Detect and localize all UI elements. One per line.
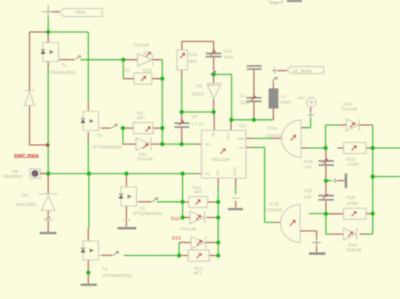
- svg-text:TS4148: TS4148: [180, 227, 197, 232]
- svg-text:HIN: HIN: [238, 136, 245, 141]
- svg-text:TS4148: TS4148: [133, 43, 150, 48]
- svg-text:VB: VB: [211, 131, 216, 137]
- svg-text:4R7: 4R7: [137, 116, 146, 121]
- svg-text:VS: VS: [205, 171, 211, 176]
- svg-text:4R7: 4R7: [194, 189, 203, 194]
- svg-text:10nF: 10nF: [224, 55, 235, 60]
- svg-text:C25: C25: [304, 188, 313, 193]
- svg-text:4R7: 4R7: [193, 271, 202, 276]
- svg-text:22µF: 22µF: [240, 100, 251, 105]
- svg-text:IPT026N10N3: IPT026N10N3: [93, 144, 123, 149]
- svg-text:C24: C24: [304, 159, 313, 164]
- svg-text:D13: D13: [172, 236, 181, 242]
- svg-text:IPT029N10N3: IPT029N10N3: [46, 70, 76, 75]
- svg-text:T1: T1: [62, 63, 68, 68]
- svg-text:+5V: +5V: [297, 95, 306, 100]
- svg-text:VE_Weld: VE_Weld: [292, 68, 312, 73]
- svg-text:D2: D2: [22, 193, 28, 198]
- svg-text:4R7: 4R7: [122, 68, 131, 73]
- svg-text:T3: T3: [97, 133, 103, 138]
- svg-text:470R: 470R: [347, 162, 359, 167]
- svg-text:R19: R19: [347, 195, 356, 200]
- svg-text:VCC: VCC: [226, 132, 231, 141]
- svg-text:HO: HO: [205, 142, 211, 147]
- svg-text:10µH: 10µH: [280, 100, 291, 105]
- svg-text:ES1G: ES1G: [192, 92, 205, 97]
- svg-text:COM: COM: [232, 167, 237, 176]
- svg-text:IC1a: IC1a: [267, 126, 277, 131]
- svg-text:470R: 470R: [347, 201, 359, 206]
- svg-text:R13: R13: [143, 68, 152, 73]
- svg-text:+Batt: +Batt: [75, 10, 87, 15]
- svg-text:1uF: 1uF: [304, 165, 312, 170]
- svg-text:LIN: LIN: [238, 145, 244, 150]
- svg-text:3R3: 3R3: [189, 59, 198, 64]
- svg-text:IPT026N10N3: IPT026N10N3: [133, 211, 163, 216]
- svg-text:TS4148: TS4148: [341, 106, 358, 111]
- svg-text:T4: T4: [102, 267, 108, 272]
- svg-text:SMCJ58A: SMCJ58A: [16, 202, 38, 207]
- svg-text:IRS2184: IRS2184: [212, 157, 230, 162]
- svg-text:C4: C4: [192, 114, 198, 119]
- svg-text:CD4070: CD4070: [265, 134, 282, 139]
- svg-text:D1: D1: [144, 50, 150, 55]
- svg-text:IPT026N10N3: IPT026N10N3: [103, 273, 133, 278]
- svg-text:D12: D12: [171, 216, 180, 222]
- svg-text:L1: L1: [281, 94, 287, 99]
- svg-text:D5: D5: [197, 84, 203, 89]
- svg-text:IC2: IC2: [239, 123, 247, 128]
- svg-text:R16: R16: [189, 52, 198, 57]
- svg-text:SMCJ58A: SMCJ58A: [14, 154, 39, 160]
- svg-text:C1: C1: [240, 93, 246, 98]
- svg-text:TS4148: TS4148: [137, 157, 154, 162]
- svg-text:1nF: 1nF: [304, 194, 312, 199]
- svg-text:IC1b: IC1b: [269, 202, 279, 207]
- svg-text:TS4148: TS4148: [345, 248, 362, 253]
- svg-text:C16: C16: [271, 1, 279, 6]
- svg-text:C15: C15: [224, 49, 233, 54]
- svg-text:7W40R07: 7W40R07: [3, 174, 24, 179]
- svg-text:CD4070: CD4070: [266, 208, 283, 213]
- svg-text:LO: LO: [215, 171, 220, 176]
- svg-text:4,7 µF: 4,7 µF: [191, 122, 204, 127]
